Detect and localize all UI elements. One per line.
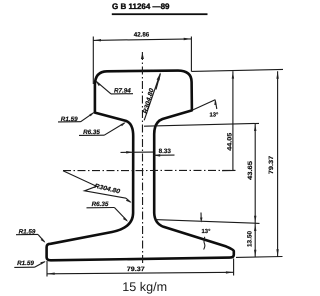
svg-text:13.50: 13.50	[247, 231, 254, 247]
svg-text:43.65: 43.65	[247, 160, 254, 180]
svg-text:8.33: 8.33	[159, 148, 172, 155]
svg-text:G B 11264 —89: G B 11264 —89	[112, 2, 170, 11]
svg-text:13°: 13°	[202, 228, 212, 235]
svg-text:13°: 13°	[209, 112, 219, 119]
svg-text:R1.59: R1.59	[17, 260, 34, 267]
svg-text:44.05: 44.05	[226, 132, 233, 151]
svg-text:15 kg/m: 15 kg/m	[122, 280, 167, 294]
svg-text:79.37: 79.37	[127, 266, 146, 273]
svg-text:42.86: 42.86	[134, 32, 150, 39]
svg-text:R304.80: R304.80	[142, 87, 156, 114]
svg-text:79.37: 79.37	[268, 155, 275, 174]
